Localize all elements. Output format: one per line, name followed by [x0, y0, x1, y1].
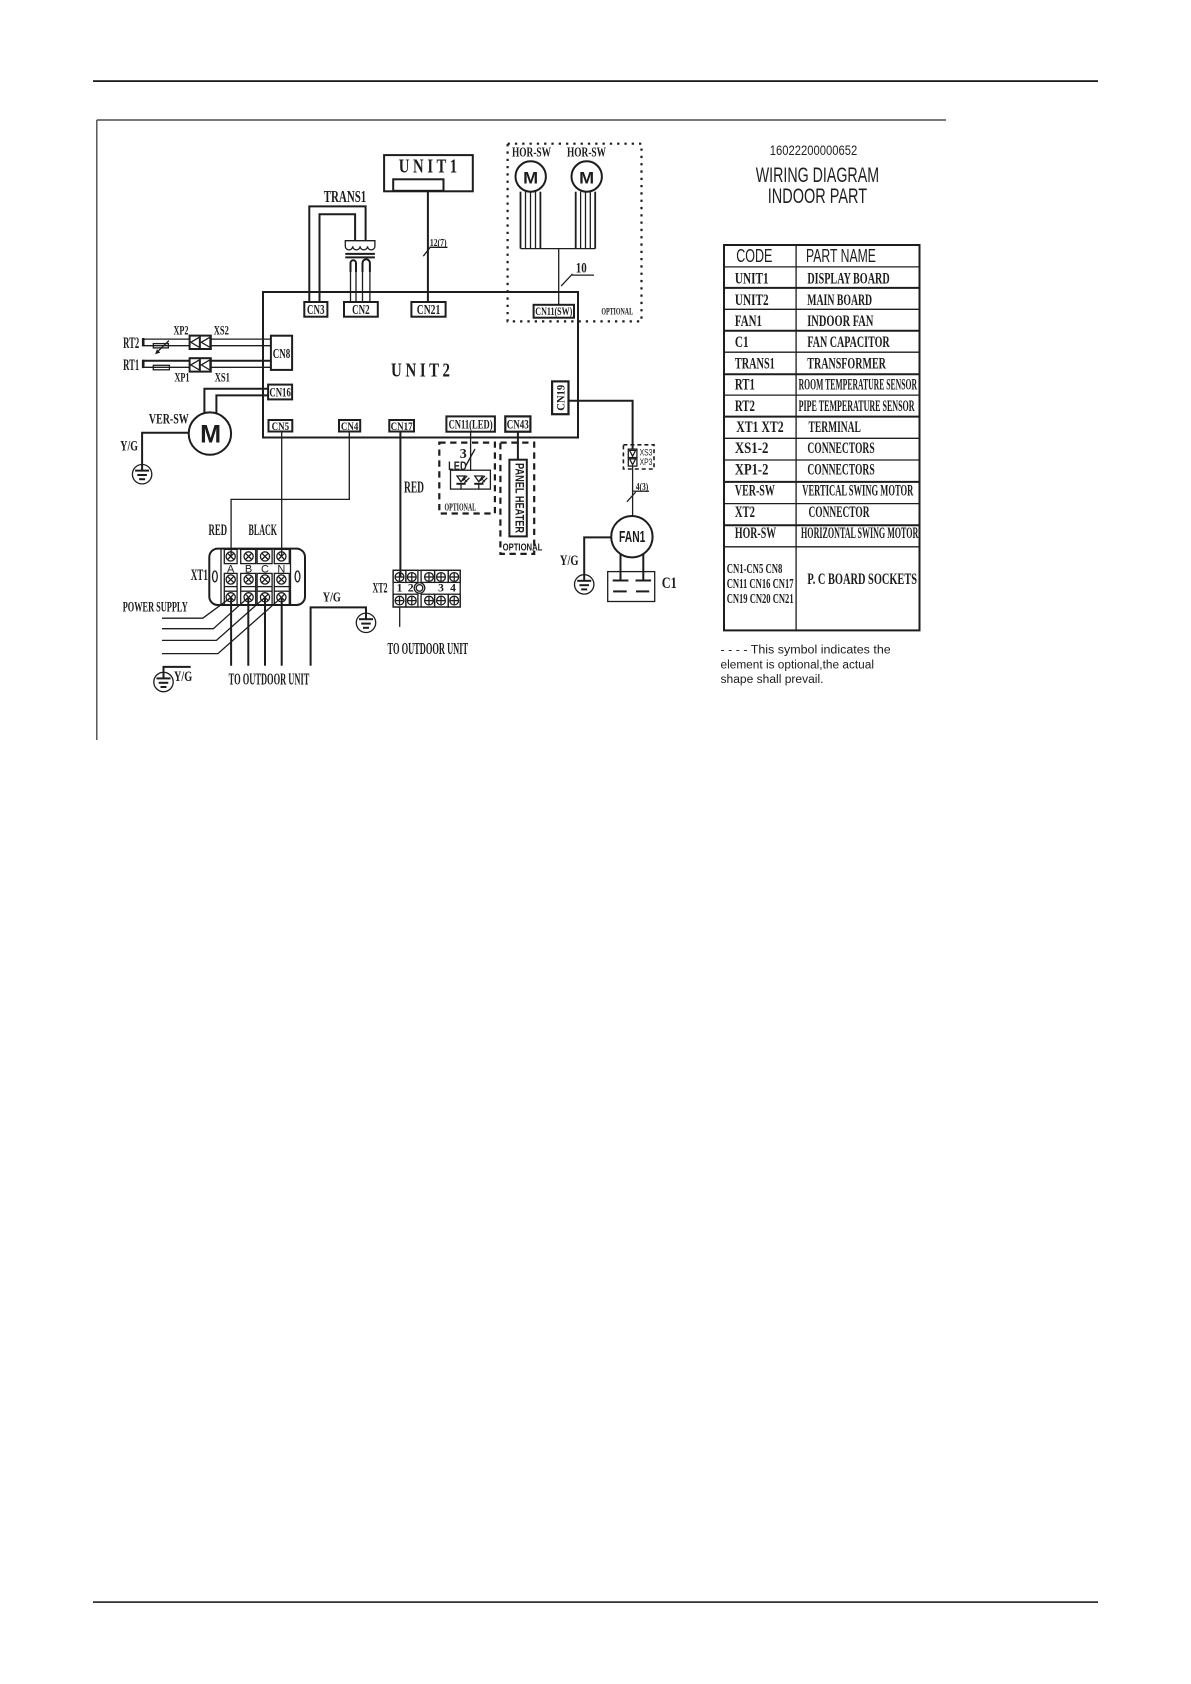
socket CN3: [304, 302, 327, 317]
table rows part name column: [799, 271, 919, 589]
note optional symbol: [721, 645, 891, 686]
wires XS2 to CN8: [211, 338, 271, 340]
page bottom rule: [93, 1601, 1098, 1603]
svg-text:WIRING DIAGRAM: WIRING DIAGRAM: [756, 164, 879, 187]
wire Y/G fifth conductor (XT1 area): [311, 607, 366, 665]
svg-text:Y/G: Y/G: [174, 669, 192, 685]
label 12(7) on UNIT1 wire: [423, 238, 447, 256]
diagram frame left edge: [96, 120, 98, 740]
svg-text:VER-SW: VER-SW: [735, 483, 775, 500]
svg-text:HORIZONTAL SWING MOTOR: HORIZONTAL SWING MOTOR: [801, 525, 919, 542]
optional dotted box HOR-SW assembly: [508, 144, 642, 322]
wires XT1 to outdoor unit: [231, 597, 282, 665]
connector XS3: [628, 448, 652, 458]
wire CN43 to panel heater: [517, 432, 519, 460]
transformer TRANS1 core: [345, 253, 375, 255]
optional dashed box LED: [439, 443, 495, 514]
LED D1: [456, 476, 469, 489]
svg-text:CN3: CN3: [307, 302, 325, 317]
wire FAN1 to C1 left: [620, 555, 622, 581]
ground (fan): [575, 575, 594, 594]
socket CN4: [339, 419, 360, 433]
svg-text:INDOOR FAN: INDOOR FAN: [807, 313, 873, 330]
main board UNIT2: [263, 292, 578, 438]
label 10 on swing wire: [561, 261, 594, 286]
svg-text:TERMINAL: TERMINAL: [809, 419, 861, 436]
thermistor RT2: [153, 344, 168, 348]
optional dashed box panel heater: [500, 443, 534, 554]
svg-text:CN17: CN17: [391, 419, 413, 433]
svg-text:RED: RED: [404, 477, 424, 496]
svg-text:- - - - This symbol indicates: - - - - This symbol indicates the: [721, 645, 891, 657]
table rows code column: [735, 271, 784, 542]
thermistor RT2 arrow: [156, 341, 169, 353]
socket CN2: [344, 302, 378, 317]
label 4(3) on fan wire: [627, 482, 649, 502]
diagram frame top edge: [97, 119, 946, 121]
svg-text:M: M: [200, 421, 221, 449]
svg-text:Y/G: Y/G: [560, 553, 579, 569]
XT1 terminal letters A B C N: [227, 563, 285, 575]
svg-text:CN21: CN21: [417, 302, 441, 317]
wire XP3 to FAN1: [632, 466, 634, 516]
wire CN5 to XT1 terminal N (black): [281, 432, 283, 557]
wire VER-SW to CN16 upper: [204, 389, 268, 413]
svg-text:OPTIONAL: OPTIONAL: [445, 502, 477, 514]
heater PANEL HEATER: [509, 460, 526, 537]
svg-text:CN16: CN16: [269, 385, 291, 400]
connector XP3: [628, 457, 652, 467]
svg-text:UNIT1: UNIT1: [735, 271, 769, 288]
XT1 middle screws: [226, 575, 235, 584]
svg-text:BLACK: BLACK: [249, 522, 278, 539]
svg-text:element is optional,the actual: element is optional,the actual: [721, 660, 875, 672]
wire VER-SW to CN16 lower: [216, 395, 268, 412]
wire CN19 to XS3: [569, 401, 633, 449]
cable bundle right hor-sw motor: [576, 192, 596, 249]
socket CN19: [552, 381, 568, 414]
wire CN4 to XT1 terminal A (red): [231, 432, 349, 557]
XT2 terminal numbers: [397, 583, 457, 595]
thermistor RT1: [153, 365, 169, 370]
XT2 centre hole: [414, 583, 425, 594]
svg-text:CN2: CN2: [352, 302, 370, 317]
svg-text:1: 1: [397, 583, 403, 595]
svg-text:TRANSFORMER: TRANSFORMER: [807, 355, 886, 372]
transformer TRANS1 secondary coil left: [351, 260, 357, 272]
svg-text:TO OUTDOOR UNIT: TO OUTDOOR UNIT: [229, 669, 310, 688]
svg-text:RT2: RT2: [735, 398, 755, 415]
terminal block XT2: [393, 570, 460, 607]
svg-text:3: 3: [438, 583, 444, 595]
svg-text:VERTICAL SWING MOTOR: VERTICAL SWING MOTOR: [802, 483, 913, 500]
socket CN17: [389, 419, 414, 433]
svg-text:TO OUTDOOR UNIT: TO OUTDOOR UNIT: [388, 639, 469, 658]
XT2 bottom screws: [395, 596, 404, 605]
svg-text:HOR-SW: HOR-SW: [567, 145, 606, 160]
terminal block XT1: [209, 549, 305, 605]
transformer TRANS1 primary coil: [345, 241, 375, 250]
fan capacitor C1: [608, 572, 655, 602]
svg-text:10: 10: [576, 261, 587, 277]
XT2 top screws: [395, 573, 404, 582]
svg-text:XS2: XS2: [214, 323, 229, 338]
svg-text:VER-SW: VER-SW: [149, 411, 189, 427]
wire RT2 bottom: [143, 345, 189, 347]
svg-text:CN1-CN5 CN8: CN1-CN5 CN8: [727, 562, 783, 577]
socket CN11(LED): [446, 416, 495, 431]
wire CN11(LED) to LED block: [470, 432, 472, 471]
legend table grid: [724, 245, 920, 630]
socket CN21: [411, 302, 445, 317]
connector pair XP1/XS1: [190, 358, 211, 371]
socket CN8: [271, 336, 292, 370]
XT1 bottom screws: [226, 593, 235, 602]
svg-text:CN11(SW): CN11(SW): [535, 306, 572, 318]
svg-text:M: M: [579, 168, 594, 187]
wire FAN1 to C1 right: [642, 555, 644, 581]
wire RT1 top: [143, 360, 189, 362]
svg-text:RT1: RT1: [123, 357, 139, 374]
svg-text:HOR-SW: HOR-SW: [735, 525, 776, 542]
svg-text:POWER SUPPLY: POWER SUPPLY: [123, 600, 188, 616]
svg-text:CODE: CODE: [736, 246, 772, 266]
cable bundle left hor-sw motor: [521, 192, 541, 249]
sensor RT1 terminal bar: [142, 360, 145, 368]
LED block: [451, 470, 491, 489]
svg-text:U N I T 2: U N I T 2: [391, 360, 450, 382]
svg-text:CN19: CN19: [553, 385, 567, 411]
svg-text:XT1 XT2: XT1 XT2: [736, 419, 783, 436]
wires XS1 to CN8: [211, 360, 271, 362]
svg-text:PART NAME: PART NAME: [806, 246, 876, 266]
socket CN11(SW): [534, 305, 574, 318]
transformer TRANS1 primary outer wire: [309, 206, 365, 302]
svg-text:CONNECTORS: CONNECTORS: [807, 462, 874, 479]
socket CN16: [268, 385, 292, 400]
svg-text:shape shall prevail.: shape shall prevail.: [721, 674, 824, 686]
power supply wire L3: [162, 597, 265, 640]
motor M hor-sw right: [572, 161, 602, 191]
svg-text:C1: C1: [662, 575, 677, 592]
display board UNIT1: [384, 155, 473, 191]
socket CN5: [269, 419, 293, 433]
XT1 top screws: [226, 552, 235, 561]
wires TRANS1 secondary to CN2: [351, 272, 370, 302]
wire joining motor bundles: [521, 248, 596, 250]
transformer TRANS1 primary inner wire: [320, 214, 356, 302]
svg-text:MAIN BOARD: MAIN BOARD: [807, 292, 872, 309]
XT1 top screw cells: [224, 549, 289, 563]
svg-text:XP1: XP1: [174, 369, 189, 384]
connector pair XP2/XS2: [190, 336, 211, 349]
svg-text:16022200000652: 16022200000652: [770, 143, 857, 158]
motor M VER-SW: [189, 412, 231, 454]
power supply wire L2: [162, 597, 248, 628]
wire bundles to CN11(SW): [558, 249, 560, 305]
wire CN17 to XT2 terminal 1 (red): [399, 432, 401, 578]
svg-text:FAN1: FAN1: [735, 313, 762, 330]
wire FAN1 to ground: [584, 537, 611, 580]
svg-text:PIPE TEMPERATURE SENSOR: PIPE TEMPERATURE SENSOR: [799, 398, 915, 415]
svg-text:CN8: CN8: [273, 346, 291, 361]
svg-text:XS1: XS1: [215, 369, 230, 384]
svg-text:RED: RED: [209, 522, 228, 539]
wire UNIT1 to CN21: [427, 191, 429, 302]
motor M hor-sw left: [516, 161, 546, 191]
page top rule: [93, 80, 1098, 82]
svg-text:UNIT2: UNIT2: [735, 292, 769, 309]
svg-text:INDOOR PART: INDOOR PART: [768, 185, 867, 208]
svg-text:M: M: [523, 168, 538, 187]
XT1 lower screw cells: [224, 573, 289, 605]
svg-text:4: 4: [450, 583, 456, 595]
svg-text:CN19 CN20 CN21: CN19 CN20 CN21: [727, 592, 794, 607]
svg-text:Y/G: Y/G: [120, 438, 138, 454]
socket CN43: [505, 416, 530, 431]
svg-text:XP3: XP3: [640, 457, 653, 467]
svg-text:FAN CAPACITOR: FAN CAPACITOR: [807, 334, 890, 351]
svg-text:DISPLAY BOARD: DISPLAY BOARD: [807, 271, 889, 288]
svg-text:CN43: CN43: [507, 418, 529, 432]
svg-text:HOR-SW: HOR-SW: [512, 145, 551, 160]
optional dashed box XS3/XP3: [623, 445, 654, 469]
svg-text:RT2: RT2: [123, 335, 139, 352]
wire VER-SW to ground: [142, 433, 189, 471]
svg-text:TRANS1: TRANS1: [735, 355, 775, 372]
svg-text:CN11 CN16 CN17: CN11 CN16 CN17: [727, 577, 794, 592]
svg-text:RT1: RT1: [735, 377, 755, 394]
svg-text:OPTIONAL: OPTIONAL: [503, 542, 543, 553]
indoor fan FAN1: [611, 516, 652, 557]
svg-text:CONNECTORS: CONNECTORS: [807, 440, 874, 457]
ground (power supply): [154, 672, 173, 691]
svg-text:PANEL HEATER: PANEL HEATER: [512, 463, 524, 534]
svg-text:Y/G: Y/G: [323, 591, 341, 606]
ground (xt2 area): [356, 613, 375, 632]
svg-text:XT1: XT1: [191, 567, 208, 584]
wire RT2 top: [143, 338, 189, 340]
svg-text:P. C BOARD SOCKETS: P. C BOARD SOCKETS: [807, 571, 917, 588]
svg-text:CN5: CN5: [272, 419, 290, 433]
svg-text:FAN1: FAN1: [619, 529, 646, 546]
transformer TRANS1 secondary coil right: [363, 259, 370, 272]
svg-text:XT2: XT2: [372, 581, 387, 597]
svg-text:XP1-2: XP1-2: [735, 462, 769, 479]
svg-text:XP2: XP2: [173, 323, 188, 338]
svg-text:CN4: CN4: [341, 419, 359, 433]
svg-text:U N I T 1: U N I T 1: [399, 156, 457, 178]
svg-text:XS1-2: XS1-2: [735, 440, 769, 457]
LED D2: [474, 476, 487, 489]
table code column CN list: [727, 562, 794, 607]
power supply wire L1: [162, 597, 231, 618]
wire RT1 bottom: [143, 366, 189, 368]
ground stem and Y/G bar (power supply): [164, 667, 191, 679]
sensor RT2 terminal bar: [142, 338, 145, 346]
svg-text:ROOM TEMPERATURE SENSOR: ROOM TEMPERATURE SENSOR: [799, 377, 918, 394]
power supply wire L4: [162, 597, 282, 653]
svg-text:OPTIONAL: OPTIONAL: [601, 308, 633, 318]
svg-text:2: 2: [408, 583, 414, 595]
svg-text:XT2: XT2: [735, 504, 755, 521]
svg-text:TRANS1: TRANS1: [324, 187, 367, 206]
svg-text:CN11(LED): CN11(LED): [449, 418, 493, 432]
ground (ver-sw): [132, 465, 151, 484]
svg-text:CONNECTOR: CONNECTOR: [808, 504, 869, 521]
svg-text:C1: C1: [735, 334, 749, 351]
wire XT2 to outdoor unit: [399, 607, 401, 627]
